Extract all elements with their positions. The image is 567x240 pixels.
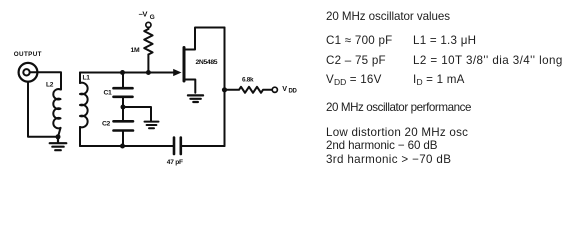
ground under L2	[50, 137, 67, 150]
OUTPUT label	[14, 51, 42, 58]
notes column	[326, 11, 450, 23]
svg-text:47 pF: 47 pF	[167, 159, 183, 166]
output jack connector center pin	[23, 69, 29, 75]
L1 label	[83, 74, 91, 81]
wire C2 bottom lead	[122, 131, 124, 147]
svg-text:OUTPUT: OUTPUT	[14, 51, 42, 58]
wire tank left side bottom	[79, 127, 81, 146]
wire C1 to C2	[122, 97, 124, 120]
wire 47 pF to drain bus	[181, 145, 225, 147]
2N5485 label	[196, 59, 218, 66]
circuit schematic of 20 MHz JFET oscillator	[0, 0, 567, 173]
svg-text:–V: –V	[139, 10, 149, 19]
ground at C1/C2 tap	[145, 122, 159, 129]
svg-text:L1: L1	[83, 74, 91, 81]
transistor Q1 2N5485 gate arrow	[173, 69, 181, 76]
ground at source	[188, 95, 203, 102]
-VG label	[139, 10, 155, 21]
wire jack ground to junction	[28, 82, 58, 137]
node C1/C2 junction	[121, 105, 126, 110]
C2 label	[102, 120, 111, 127]
inductor L1	[80, 83, 88, 128]
node junction L2/ground	[56, 134, 61, 139]
wire tap to ground	[123, 107, 151, 121]
transistor Q1 drain lead	[184, 28, 225, 50]
svg-text:2N5485: 2N5485	[196, 59, 218, 66]
wire VG terminal to resistor	[147, 28, 149, 30]
inductor L2	[53, 89, 60, 128]
wire drain bus	[224, 28, 226, 147]
resistor 1M	[144, 29, 152, 55]
47 pF label	[167, 159, 183, 166]
wire L2 bottom to ground junction	[58, 128, 61, 137]
node C2 / bottom rail	[120, 144, 125, 149]
L2 label	[46, 81, 54, 88]
1M label	[131, 47, 140, 54]
node drain / 6.8k	[222, 87, 227, 92]
node 1M / gate rail	[146, 70, 151, 75]
output jack connector outer ring	[19, 63, 38, 82]
terminal -VG	[146, 22, 151, 27]
terminal VDD	[272, 87, 277, 92]
wire 1M to gate rail	[147, 55, 149, 73]
svg-text:L2: L2	[46, 81, 54, 88]
svg-text:DD: DD	[289, 89, 298, 95]
transistor Q1 channel bar	[183, 48, 186, 82]
svg-text:6.8k: 6.8k	[242, 77, 254, 84]
resistor 6.8k	[227, 87, 272, 93]
wire from jack pin to L2 top	[30, 72, 61, 89]
svg-text:V: V	[282, 84, 287, 93]
wire tank top rail / gate net	[80, 72, 176, 74]
capacitor 47 pF	[174, 138, 181, 155]
svg-text:G: G	[150, 14, 155, 21]
wire tank left side top	[79, 73, 81, 84]
svg-text:C1: C1	[104, 90, 113, 97]
wire C1 top lead	[122, 73, 124, 87]
svg-text:C2: C2	[102, 120, 111, 127]
capacitor C2	[114, 121, 134, 130]
node top rail / C1 branch	[120, 70, 125, 75]
capacitor C1	[114, 88, 133, 97]
VDD label	[282, 84, 297, 95]
wire tank bottom rail	[80, 145, 174, 147]
svg-text:1M: 1M	[131, 47, 140, 54]
C1 label	[104, 90, 113, 97]
transistor Q1 source lead	[184, 80, 195, 93]
6.8k label	[242, 77, 254, 84]
